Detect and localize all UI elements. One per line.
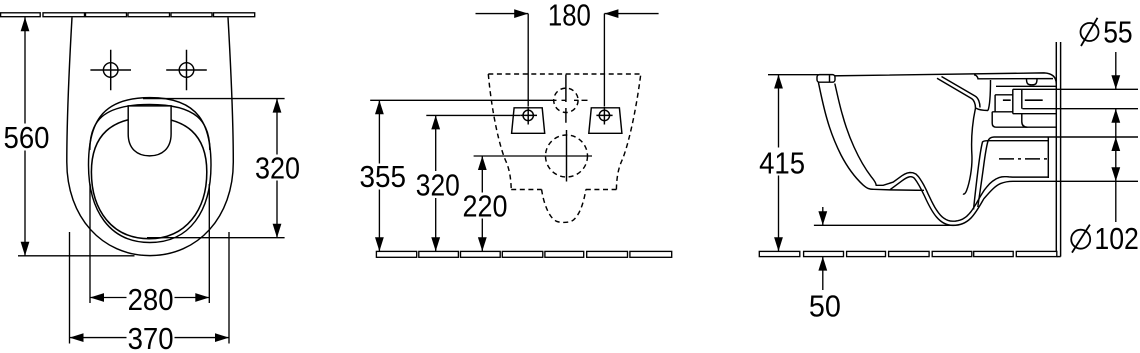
svg-text:280: 280 — [128, 283, 174, 317]
svg-text:370: 370 — [128, 322, 174, 353]
svg-text:320: 320 — [255, 152, 300, 186]
svg-text:320: 320 — [416, 169, 460, 203]
svg-text:180: 180 — [548, 0, 591, 33]
svg-text:102: 102 — [1094, 222, 1139, 256]
svg-text:55: 55 — [1103, 16, 1133, 50]
svg-text:220: 220 — [463, 190, 508, 224]
svg-text:560: 560 — [4, 121, 50, 155]
svg-text:355: 355 — [360, 160, 407, 194]
svg-text:50: 50 — [809, 289, 841, 323]
svg-text:415: 415 — [759, 147, 805, 181]
